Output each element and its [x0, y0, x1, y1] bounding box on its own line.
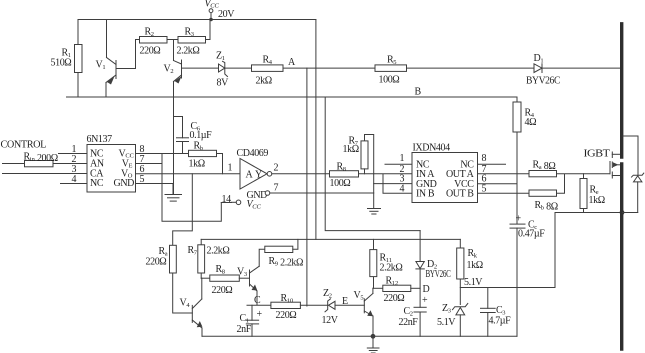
- pin 7: [136, 154, 163, 165]
- wire R3 right to Vcc node: [206, 20, 211, 40]
- transistor V4: [180, 298, 203, 329]
- svg-text:E: E: [342, 296, 348, 307]
- svg-text:0.1µF: 0.1µF: [190, 130, 213, 141]
- svg-text:2kΩ: 2kΩ: [256, 76, 272, 87]
- resistor R10 8 ohm (gate off): [529, 190, 558, 213]
- svg-text:220Ω: 220Ω: [276, 310, 297, 321]
- resistor R7 1k to ground: [343, 135, 374, 174]
- svg-text:5: 5: [140, 174, 145, 185]
- wire emitter return line: [460, 287, 555, 289]
- svg-text:IGBT: IGBT: [584, 149, 610, 160]
- svg-text:V4: V4: [180, 298, 191, 310]
- optocoupler U1 6N137: [87, 134, 136, 192]
- wire R10b to zener Z2: [300, 304, 327, 306]
- resistor Ra 220 ohm: [146, 245, 177, 273]
- svg-text:14: 14: [222, 194, 232, 205]
- pin5 OUT B wire: [478, 183, 530, 194]
- resistor R7b 2.2k: [188, 239, 230, 278]
- pin6 VCC wire: [478, 174, 518, 185]
- resistor R6 4 ohm: [513, 97, 536, 224]
- wire V4 emitter to rail: [201, 328, 203, 336]
- diode D1 BYV26C: [526, 53, 561, 87]
- wire clamp bottom to emitter node: [623, 212, 638, 214]
- svg-text:8V: 8V: [217, 78, 230, 89]
- wire A line to R5: [283, 67, 375, 69]
- pin 3: [3, 164, 88, 175]
- svg-text:Ra 8Ω: Ra 8Ω: [533, 160, 556, 173]
- svg-text:BYV26C: BYV26C: [426, 269, 452, 280]
- svg-text:2: 2: [274, 163, 279, 174]
- driver U3 IXDN404: [412, 143, 478, 203]
- resistor R5 100 ohm: [375, 55, 407, 86]
- wire V5 emitter to rail: [372, 316, 374, 336]
- resistor Re 1k gate-emitter: [580, 174, 605, 213]
- node dot emitter-bus: [620, 210, 625, 215]
- svg-text:4: 4: [400, 183, 405, 194]
- zener Z3 5.1V: [437, 303, 468, 336]
- bus collector segment (thick): [620, 24, 623, 157]
- svg-text:220Ω: 220Ω: [212, 285, 233, 296]
- wire B drop: [325, 97, 420, 231]
- svg-text:R7: R7: [188, 245, 198, 257]
- wire Vcc link to CD4069 pin14: [162, 154, 221, 222]
- svg-text:Rk: Rk: [468, 248, 478, 260]
- svg-text:IXDN404: IXDN404: [413, 143, 451, 154]
- resistor R3 2.2k (top): [177, 27, 206, 57]
- svg-text:A: A: [246, 170, 254, 181]
- svg-text:Rb: Rb: [194, 141, 204, 153]
- capacitor C6 0.1uF: [174, 117, 213, 154]
- wire Ra to V4 base: [173, 273, 193, 313]
- svg-text:1kΩ: 1kΩ: [189, 159, 205, 170]
- wire clamp branch top: [623, 136, 638, 175]
- ground (driver section): [368, 209, 381, 215]
- svg-text:C2: C2: [404, 306, 414, 318]
- resistor Rb 1k pull-up: [189, 141, 217, 170]
- wire R8b to V3 base: [239, 277, 249, 279]
- svg-text:C: C: [254, 295, 261, 306]
- wire R12 to node D: [411, 287, 420, 289]
- svg-text:12V: 12V: [322, 315, 339, 326]
- wire zener to R4: [225, 67, 252, 69]
- svg-text:100Ω: 100Ω: [379, 75, 400, 86]
- pin8 stub: [478, 153, 506, 164]
- svg-text:220Ω: 220Ω: [140, 46, 161, 57]
- wire R8 to IXDN inputs: [359, 174, 413, 193]
- resistor R2 220 ohm (top): [140, 27, 168, 57]
- svg-text:Z1: Z1: [216, 51, 225, 63]
- svg-text:1: 1: [400, 153, 405, 164]
- svg-text:D: D: [423, 284, 430, 295]
- resistor R8 100 ohm: [330, 162, 359, 190]
- svg-text:22nF: 22nF: [399, 317, 419, 328]
- wire input net drop to Ra: [173, 174, 193, 246]
- wire R2 left to V1 base: [116, 40, 140, 69]
- svg-text:1kΩ: 1kΩ: [343, 144, 359, 155]
- Vcc terminal: [205, 0, 236, 21]
- svg-text:1kΩ: 1kΩ: [589, 195, 605, 206]
- wire A drop to bottom section: [306, 68, 308, 306]
- svg-text:OUT B: OUT B: [446, 188, 474, 199]
- wire V4 collector: [201, 278, 203, 299]
- pin 6: [136, 164, 241, 175]
- svg-text:7: 7: [274, 183, 279, 194]
- svg-text:1: 1: [228, 163, 233, 174]
- node dot V5 emitter rail: [371, 334, 376, 339]
- capacitor C1 2nF: [237, 305, 263, 336]
- inverter U2 CD4069: [228, 148, 279, 189]
- svg-text:2.2kΩ: 2.2kΩ: [177, 46, 200, 57]
- svg-text:2.2kΩ: 2.2kΩ: [380, 263, 403, 274]
- svg-text:Z3: Z3: [442, 303, 451, 315]
- pin 7 GND of CD4069: [247, 183, 374, 202]
- svg-text:R2: R2: [145, 27, 155, 39]
- wire R5 to D1: [407, 67, 535, 69]
- svg-text:2nF: 2nF: [237, 324, 252, 335]
- pin 5: [136, 174, 174, 185]
- pin 14 Vcc of CD4069: [221, 194, 261, 211]
- resistor R1 510 ohm: [51, 20, 83, 98]
- svg-text:R10: R10: [281, 293, 294, 305]
- svg-text:510Ω: 510Ω: [51, 58, 72, 69]
- wire 20V drop to lower rail: [315, 20, 317, 240]
- wire Rb right to inverter input: [217, 154, 223, 174]
- svg-text:R12: R12: [386, 276, 399, 288]
- svg-text:20V: 20V: [218, 9, 235, 20]
- wire base line to R8b: [201, 277, 210, 279]
- resistor R9 8 ohm (gate on): [529, 160, 557, 177]
- bus emitter segment (thick): [620, 164, 623, 349]
- capacitor C3 4.7uF: [481, 288, 512, 337]
- pin 8: [136, 144, 189, 155]
- svg-text:4.7µF: 4.7µF: [489, 316, 512, 327]
- svg-text:A: A: [288, 57, 296, 68]
- svg-text:2.2kΩ: 2.2kΩ: [207, 246, 230, 257]
- svg-text:NC: NC: [90, 178, 104, 189]
- wire B rail: [67, 96, 518, 98]
- zener Z2 12V: [322, 288, 339, 326]
- resistor R9b 2.2k: [265, 246, 303, 268]
- capacitor C2 22nF: [399, 295, 429, 336]
- wire gate tie: [557, 174, 611, 193]
- zener Z1 8V: [216, 51, 229, 89]
- resistor Rk 1k: [457, 239, 484, 304]
- wire V3 emitter to node C: [247, 291, 271, 305]
- svg-text:Y: Y: [255, 170, 262, 181]
- svg-text:4Ω: 4Ω: [525, 117, 537, 128]
- pin1 stub: [385, 153, 412, 164]
- svg-text:BYV26C: BYV26C: [526, 76, 561, 87]
- wire inverter output to R8: [272, 173, 330, 175]
- svg-text:V2: V2: [164, 64, 174, 76]
- svg-text:R8: R8: [337, 162, 347, 174]
- wire R9b right to rail: [293, 239, 298, 249]
- resistor Rin 200 ohm: [3, 152, 58, 167]
- pin 2: [53, 154, 87, 165]
- svg-text:0.47µF: 0.47µF: [518, 229, 545, 240]
- svg-text:R8: R8: [216, 264, 226, 276]
- svg-text:5: 5: [482, 183, 487, 194]
- resistor R8b 220 ohm: [210, 264, 240, 296]
- svg-text:V5: V5: [354, 290, 364, 302]
- diode D2 BYV26C: [416, 231, 451, 308]
- svg-text:Z2: Z2: [323, 288, 332, 300]
- svg-text:R5: R5: [387, 55, 397, 67]
- svg-text:B: B: [415, 87, 422, 98]
- wire R11 bottom to R12: [373, 287, 383, 289]
- svg-text:D1: D1: [534, 53, 544, 65]
- resistor R11 2.2k: [370, 239, 403, 288]
- transistor V1: [96, 20, 117, 98]
- resistor R4 2k: [252, 55, 284, 87]
- wire emitter node line: [555, 213, 623, 288]
- svg-text:CONTROL: CONTROL: [1, 140, 47, 151]
- transistor V3: [237, 266, 259, 291]
- wire D1 to bus: [542, 67, 620, 69]
- svg-text:4: 4: [72, 174, 77, 185]
- svg-text:R4: R4: [263, 55, 273, 67]
- wire R7 ground drop: [373, 174, 375, 209]
- svg-text:GND: GND: [114, 178, 135, 189]
- wire V5 collector: [372, 288, 374, 293]
- svg-text:6N137: 6N137: [87, 134, 113, 145]
- svg-text:220Ω: 220Ω: [146, 257, 167, 268]
- transistor V5: [354, 290, 374, 316]
- capacitor Cc 0.47uF: [510, 214, 545, 337]
- svg-text:V1: V1: [96, 60, 106, 72]
- wire V3 collector to R9b: [259, 249, 265, 266]
- svg-text:5.1V: 5.1V: [464, 277, 483, 288]
- pin 4: [61, 174, 88, 185]
- svg-text:220Ω: 220Ω: [384, 293, 405, 304]
- svg-text:+: +: [422, 295, 428, 306]
- svg-text:8: 8: [482, 153, 487, 164]
- svg-text:1kΩ: 1kΩ: [467, 260, 483, 271]
- wire R2-R3 junction to V2 collector: [167, 40, 178, 61]
- svg-text:IN B: IN B: [416, 188, 435, 199]
- wire 20V rail of bottom block: [201, 238, 460, 240]
- svg-text:R9 2.2kΩ: R9 2.2kΩ: [269, 256, 304, 269]
- pin7 OUT A wire: [478, 164, 530, 175]
- svg-text:C1: C1: [240, 313, 250, 325]
- pin3 wire: [374, 174, 412, 185]
- pin 1: [59, 144, 88, 155]
- wire top 20V rail: [78, 19, 316, 21]
- ground (bottom): [367, 336, 379, 353]
- wire V2 base to zener Z1: [182, 67, 219, 69]
- transistor V2: [164, 60, 182, 84]
- svg-text:Rb 8Ω: Rb 8Ω: [535, 200, 558, 213]
- wire node E to V5 base: [335, 304, 364, 306]
- svg-text:100Ω: 100Ω: [330, 178, 351, 189]
- resistor R12 220 ohm: [383, 276, 411, 305]
- resistor R10b 220 ohm: [271, 293, 301, 321]
- svg-text:CD4069: CD4069: [237, 148, 269, 159]
- svg-text:+: +: [257, 309, 263, 320]
- wire V2 emitter down to ground: [173, 82, 175, 194]
- svg-text:5.1V: 5.1V: [437, 317, 456, 328]
- svg-text:+: +: [516, 214, 522, 225]
- svg-text:Rin 200Ω: Rin 200Ω: [24, 152, 58, 165]
- wire bottom rail: [202, 335, 517, 337]
- svg-text:V3: V3: [237, 267, 247, 279]
- IGBT Q1: [610, 152, 621, 178]
- zener clamp across IGBT: [632, 173, 644, 212]
- ground (6N137): [165, 184, 182, 202]
- svg-text:R3: R3: [185, 27, 195, 39]
